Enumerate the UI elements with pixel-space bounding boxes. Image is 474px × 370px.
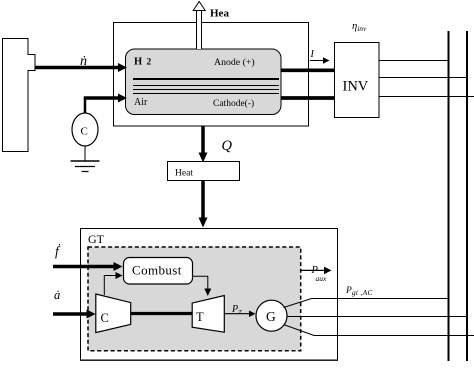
svg-text:C: C: [101, 311, 109, 325]
svg-text:C: C: [81, 126, 88, 138]
svg-text:Heat: Heat: [175, 169, 193, 179]
svg-text:Air: Air: [134, 97, 148, 108]
svg-text:ṅ: ṅ: [80, 54, 87, 69]
svg-text:2: 2: [147, 58, 152, 68]
svg-text:Q: Q: [222, 138, 233, 154]
svg-text:GT: GT: [88, 232, 105, 246]
svg-text:aux: aux: [316, 274, 328, 283]
svg-text:T: T: [196, 310, 204, 324]
svg-text:Hea: Hea: [210, 8, 229, 20]
svg-text:ḟ: ḟ: [55, 244, 61, 259]
svg-text:Pgt ,AC: Pgt ,AC: [345, 286, 373, 297]
svg-text:G: G: [266, 309, 276, 324]
svg-text:ȧ: ȧ: [54, 288, 60, 302]
svg-text:Anode (+): Anode (+): [214, 57, 255, 68]
svg-text:ηinv: ηinv: [352, 21, 367, 33]
svg-text:Combust: Combust: [132, 263, 182, 278]
svg-text:I: I: [310, 49, 315, 60]
svg-text:INV: INV: [343, 79, 369, 95]
svg-text:Cathode(-): Cathode(-): [213, 98, 254, 109]
svg-text:H: H: [134, 57, 142, 68]
